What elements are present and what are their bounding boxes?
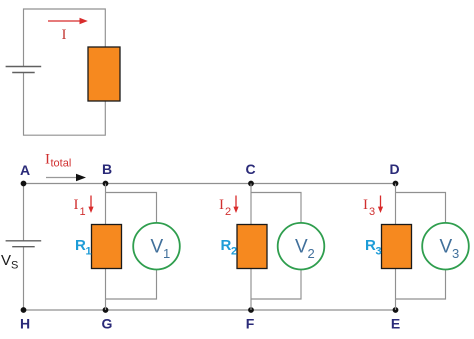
svg-text:2: 2 [308,246,315,261]
wire branch 2 vertical [250,184,252,311]
svg-text:B: B [102,161,112,177]
resistor (top circuit) [88,47,120,101]
svg-text:I: I [45,152,50,168]
svg-text:1: 1 [80,206,86,218]
wire voltmeter V2 taps [251,193,301,300]
svg-text:D: D [389,161,399,177]
svg-text:3: 3 [452,246,459,261]
svg-text:3: 3 [369,206,375,218]
svg-text:F: F [246,316,255,332]
voltmeter U3 [422,223,469,270]
svg-text:I: I [219,197,224,213]
wire branch 1 vertical [105,184,107,311]
arrow I3 [378,196,383,214]
node E [393,307,399,313]
svg-text:C: C [245,161,255,177]
svg-text:V: V [440,237,453,258]
svg-text:A: A [20,162,30,178]
svg-text:I: I [62,27,67,43]
svg-text:R: R [75,237,86,254]
node F [248,307,254,313]
svg-text:3: 3 [376,246,382,258]
node A [21,181,27,187]
svg-text:total: total [51,158,72,170]
node G [103,307,109,313]
battery VS [6,241,42,247]
wire voltmeter V1 taps [106,193,157,300]
resistor R1 [92,225,122,269]
svg-text:R: R [221,237,232,254]
wire left (source branch) [23,184,25,311]
svg-text:I: I [363,197,368,213]
svg-text:2: 2 [231,246,237,258]
battery (top circuit) [6,67,42,73]
svg-text:G: G [102,316,113,332]
voltmeter U1 [133,223,180,270]
arrow I_total [46,174,86,181]
node D [393,181,399,187]
voltmeter U2 [278,223,325,270]
svg-text:I: I [74,197,79,213]
arrow I2 [233,196,238,214]
resistor R3 [382,225,412,269]
svg-text:V: V [295,237,308,258]
svg-text:H: H [20,316,30,332]
wire main top A-D [24,183,396,185]
svg-text:2: 2 [225,206,231,218]
svg-text:R: R [365,237,376,254]
arrow I1 [88,196,93,214]
svg-text:1: 1 [163,246,170,261]
wire top-circuit loop [24,9,106,135]
svg-text:E: E [391,316,400,332]
node C [248,181,254,187]
current arrow I [48,18,88,25]
wire branch 3 vertical [395,184,397,311]
node H [21,307,27,313]
svg-text:1: 1 [86,246,92,258]
wire voltmeter V3 taps [396,193,446,300]
resistor R2 [237,225,267,269]
svg-text:V: V [151,237,164,258]
wire main bottom H-E [24,309,396,311]
node B [103,181,109,187]
